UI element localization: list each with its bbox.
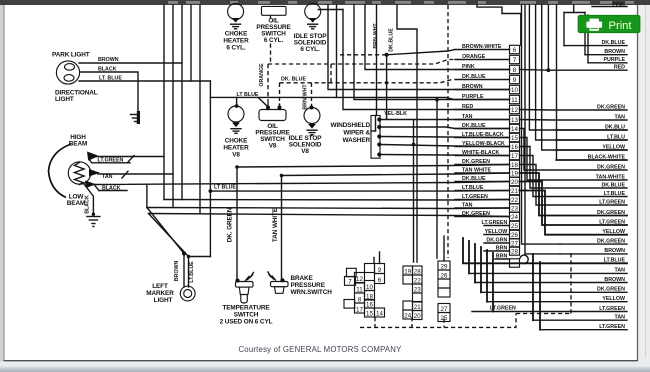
wire right row RED y=70.2 [520, 69, 628, 72]
svg-text:YELLOW-BLACK: YELLOW-BLACK [462, 141, 505, 147]
svg-text:DK.GREEN: DK.GREEN [597, 104, 625, 110]
wire right row BLACK-WHITE y=160 [556, 159, 627, 161]
cluster1 box 12 [355, 273, 365, 283]
wire vertical x=200 from top to bus 24 [199, 5, 201, 214]
svg-text:Courtesy of GENERAL MOTORS COM: Courtesy of GENERAL MOTORS COMPANY [238, 345, 402, 354]
svg-text:HEATER: HEATER [223, 38, 249, 45]
svg-text:BRN: BRN [496, 245, 508, 251]
svg-text:PURPLE: PURPLE [462, 94, 484, 100]
svg-text:YELLOW: YELLOW [602, 296, 625, 302]
svg-text:BRN: BRN [496, 253, 508, 259]
wire pin 10 BROWN [455, 89, 510, 91]
wire right row LT.GREEN y=311.5 [472, 311, 627, 313]
windshield wiper washer box [371, 116, 380, 159]
svg-text:DK.GREEN: DK.GREEN [597, 287, 625, 293]
cluster1 box blank [365, 264, 375, 273]
svg-text:9: 9 [378, 267, 382, 274]
svg-text:19: 19 [511, 171, 518, 178]
wire right row DK.BLUE y=188 [520, 147, 628, 189]
svg-text:BROWN: BROWN [98, 57, 119, 63]
wire pin 6 feed from top [477, 5, 521, 45]
wire right row YELLOW y=150 [556, 149, 627, 151]
wire vertical x=191 from top to LT.BLUE park wire [190, 5, 192, 81]
extra connector box below pin 28 [510, 259, 520, 267]
ground for low beam [92, 213, 95, 216]
svg-text:BLACK-WHITE: BLACK-WHITE [588, 154, 626, 160]
cluster1 box 6 [375, 274, 385, 284]
headlamp sealed beam symbol [49, 144, 72, 198]
svg-text:BEAM: BEAM [67, 200, 85, 207]
svg-text:MARKER: MARKER [146, 290, 174, 297]
cluster1 box 15 [365, 308, 375, 317]
svg-text:6 CYL.: 6 CYL. [226, 45, 246, 52]
wire DK.BLUE vertical x=397 corner to cluster 2 [397, 5, 417, 262]
svg-text:10: 10 [511, 87, 518, 94]
park-directional light lamp symbol [56, 61, 79, 84]
svg-text:LT. BLUE: LT. BLUE [99, 76, 122, 82]
wire bus to pin 22 [164, 199, 510, 202]
svg-text:25: 25 [511, 223, 518, 230]
wire right row TAN-WHITE y=180 [520, 138, 628, 181]
svg-text:16: 16 [511, 144, 518, 151]
wire LT.BLUE row y=97.4 to connector pin 11 [210, 97, 454, 99]
svg-text:2 USED ON 6 CYL: 2 USED ON 6 CYL [220, 319, 273, 326]
svg-text:WASHER: WASHER [343, 137, 371, 144]
cluster1 box 9 [375, 264, 385, 274]
wire BRN-WHT dashed drop to V8 idle solenoid [311, 83, 313, 107]
svg-text:DK.BLUE: DK.BLUE [462, 123, 486, 129]
wire bus to pin 19 with TAN WHITE tap [282, 173, 510, 176]
wire long vertical x=521.5 to DK.GREEN row 244 [522, 5, 561, 244]
svg-text:15: 15 [366, 310, 373, 317]
wire pin 7 ORANGE [455, 59, 510, 61]
wire pin 17 WHITE-BLACK [455, 155, 510, 157]
wire RED feed vertical x=343 to pin 12 [343, 10, 510, 110]
wire bus to pin 21 LT.BLUE [210, 190, 509, 193]
svg-text:21: 21 [511, 188, 518, 195]
wire right row LT.BLUE y=263.3 [463, 262, 627, 264]
wire right row TAN y=320.2 [533, 319, 627, 321]
svg-text:LT.GREEN: LT.GREEN [481, 220, 507, 226]
svg-text:BRN-WHT: BRN-WHT [373, 23, 379, 49]
svg-text:SWITCH: SWITCH [234, 312, 259, 319]
svg-text:DK.GREEN: DK.GREEN [462, 159, 490, 165]
svg-text:6 CYL.: 6 CYL. [264, 37, 284, 44]
svg-text:DK.GREEN: DK.GREEN [597, 238, 625, 244]
wire vertical from junction down to wiper row [386, 55, 388, 120]
wiper terminal dots [377, 117, 381, 121]
svg-text:BROWN: BROWN [604, 248, 625, 254]
svg-text:14: 14 [376, 310, 383, 317]
temperature switch broken terminal squiggle [246, 277, 250, 281]
wire right row TAN y=273.4 [469, 272, 627, 274]
cluster2 box 24 [403, 310, 413, 319]
wire L-drop x=469 to right row 273.4 [468, 241, 470, 273]
wire right row LT.GREEN y=225 [520, 182, 628, 226]
cluster1 box 11 [355, 283, 365, 293]
wire TAN bottom feed [532, 254, 534, 320]
svg-text:LT.BLUE-BLACK: LT.BLUE-BLACK [462, 132, 504, 138]
wire vertical x=556.5 to right row y=160 [557, 5, 628, 160]
wire ORANGE dashed row to pin 7 [268, 60, 455, 65]
wire pin 16 YELLOW-BLACK [455, 146, 510, 148]
wire right row DK.GREEN y=215.5 [520, 173, 628, 216]
svg-text:BROWN-WHITE: BROWN-WHITE [462, 44, 502, 50]
svg-text:LIGHT: LIGHT [154, 297, 173, 304]
svg-text:BRN-WHT: BRN-WHT [303, 84, 309, 110]
svg-text:PRESSURE: PRESSURE [291, 282, 326, 289]
wire bus to pin 18 with DK.GREEN tap [237, 165, 510, 168]
wire vertical x=173 from top through TAN to bus 23 [172, 174, 174, 208]
svg-text:TAN: TAN [462, 114, 473, 120]
svg-text:19: 19 [404, 268, 411, 275]
wire pin 27 DK.GRN [484, 242, 510, 244]
cluster1 box blank [344, 300, 355, 309]
wire vertical x=182 from top joining BROWN park light to bus 22 [181, 5, 183, 200]
junction dot V8 oil switch left terminal [266, 106, 270, 110]
wire wiper row 1 to pin 13 [382, 119, 510, 121]
svg-text:BROWN: BROWN [174, 261, 180, 282]
wire LT.BLUE from park light [79, 80, 210, 82]
wire pin 9 DK.BLUE [455, 79, 510, 81]
svg-text:CHOKE: CHOKE [225, 138, 248, 145]
cluster3 box 26 [438, 270, 450, 279]
wire link marker to vertical x=210.4 [189, 256, 211, 258]
wire right row PINK y=6.5 [592, 6, 627, 8]
wire LT.GREEN bottom feed [539, 262, 541, 330]
wire right row TAN y=120 [520, 119, 628, 122]
svg-text:DK.GREEN: DK.GREEN [597, 210, 625, 216]
svg-text:27: 27 [441, 306, 448, 313]
svg-text:BEAM: BEAM [69, 141, 87, 148]
svg-text:TAN-WHITE: TAN-WHITE [596, 174, 626, 180]
svg-text:24: 24 [404, 312, 411, 319]
svg-text:LT.BLU: LT.BLU [607, 134, 625, 140]
svg-text:DK.BLUE: DK.BLUE [462, 176, 486, 182]
wire vertical x=529.4 to right row y=130 [529, 5, 627, 130]
left marker light symbol [180, 286, 195, 301]
cluster2 box 21 [413, 302, 423, 311]
wire idle solenoid 6cyl to RED vertical [318, 9, 343, 11]
wire vertical link x=146.9 from BLACK [146, 185, 148, 208]
wire long vertical x=525 to BROWN row 254 [525, 5, 560, 254]
svg-text:Print: Print [609, 20, 633, 32]
svg-text:CHOKE: CHOKE [225, 31, 248, 38]
wire pin 20 DK.BLUE [455, 181, 510, 183]
wire diagonal to left marker BROWN [147, 208, 184, 254]
wire wiper row 5 to pin 17 [382, 155, 510, 156]
wire right row DK.GREEN y=170 [520, 129, 628, 171]
cluster3 box 27 [438, 304, 450, 313]
svg-text:TAN WHITE: TAN WHITE [272, 207, 279, 242]
svg-text:BROWN: BROWN [604, 277, 625, 283]
svg-text:DK.GRN: DK.GRN [486, 237, 507, 243]
svg-text:28: 28 [414, 268, 421, 275]
wire dashed pin6 feed with junction [340, 54, 387, 56]
wire pin 11 PURPLE [455, 99, 510, 101]
svg-text:WIPER &: WIPER & [343, 130, 370, 137]
svg-text:22: 22 [414, 277, 421, 284]
wire right row DK.BLU y=130 [556, 129, 627, 131]
wire ORANGE dashed vertical [270, 15, 272, 18]
svg-text:RED: RED [614, 65, 625, 71]
wire pin 6 BROWN-WHITE [455, 49, 510, 51]
wire DK.BLUE dashed row to pin 9 [280, 80, 453, 83]
dashed firewall boundary line [447, 5, 449, 258]
svg-text:LEFT: LEFT [152, 283, 168, 290]
wire PURPLE feed vertical x=354 to pin 11 [354, 5, 510, 100]
svg-text:BROWN: BROWN [462, 84, 483, 90]
window chrome top bar [0, 0, 650, 5]
wire wiper branch x=413.5 down to cluster 2 [413, 120, 415, 263]
wire solid pin6 feed from junction [387, 50, 455, 55]
wire L-drop x=487 to right row 301.7 [486, 250, 488, 302]
svg-text:PINK: PINK [462, 64, 475, 70]
svg-text:17: 17 [511, 153, 518, 160]
svg-text:YELLOW: YELLOW [485, 229, 508, 235]
wire pin 19 TAN WHITE [455, 172, 510, 174]
wire right row DK.GREEN y=244.1 [560, 243, 627, 245]
wire wiper row 4 to pin 16 [382, 145, 510, 147]
cluster1 box 14 [375, 308, 385, 317]
wire pin 26 YELLOW [484, 234, 510, 236]
svg-text:6 CYL.: 6 CYL. [300, 46, 320, 53]
svg-text:LT BLUE: LT BLUE [237, 92, 259, 98]
svg-text:29: 29 [441, 263, 448, 270]
cluster3 box blank [438, 279, 450, 288]
wire T-split feeding DK.BLUE and BROWN right rows [573, 5, 575, 13]
svg-text:23: 23 [414, 286, 421, 293]
wire pin 24 DK.GREEN [455, 216, 510, 218]
cluster1 box 18 [365, 291, 375, 301]
svg-text:PINK: PINK [612, 2, 625, 8]
wire TAN WHITE drop to brake switch [281, 176, 283, 280]
svg-text:V8: V8 [269, 143, 277, 150]
svg-text:PURPLE: PURPLE [604, 57, 626, 63]
svg-text:15: 15 [511, 135, 518, 142]
wire L-drop x=475 to right row 282.5 [474, 244, 476, 283]
dashed drops from clusters [374, 317, 376, 327]
svg-text:26: 26 [511, 232, 518, 239]
svg-text:LT.GREEN: LT.GREEN [462, 194, 488, 200]
wire right row DK.BLUE y=45.6 [564, 45, 627, 47]
svg-text:TEMPERATURE: TEMPERATURE [222, 305, 270, 312]
svg-text:DK.BLUE: DK.BLUE [389, 28, 395, 52]
svg-text:13: 13 [511, 117, 518, 124]
wire PINK feed vertical x=365 to pin 8 [365, 5, 510, 70]
svg-text:26: 26 [441, 272, 448, 279]
svg-text:DK.BLU: DK.BLU [605, 124, 625, 130]
wire right row BROWN y=282.5 [475, 282, 627, 284]
wire right row BROWN y=253.9 [560, 253, 627, 255]
svg-text:11: 11 [356, 286, 363, 293]
cluster2 box 20 [413, 311, 423, 320]
wire LT.BLUE drop to V8 choke heater [236, 97, 238, 105]
wire vertical x=535.6 to right row y=140 [536, 5, 627, 140]
wire LT.GREEN from high beam going up at x=164 [96, 5, 164, 157]
svg-text:BLACK: BLACK [98, 67, 117, 73]
wire diagonal to left marker LT.BLUE [149, 214, 189, 257]
wire vertical x=336.5 to LT.BLUE row [336, 5, 338, 97]
wire wiper row 3 to pin 15 [382, 137, 510, 138]
wire pin 12 RED [455, 109, 510, 111]
svg-text:12: 12 [511, 107, 518, 114]
brake switch broken terminal squiggle [272, 276, 276, 280]
svg-text:23: 23 [511, 206, 518, 213]
cluster1 box 7 [345, 277, 356, 286]
wire BRN-WHT vertical to wiper box [376, 5, 378, 115]
wire right row LT.BLUE y=196.5 [520, 156, 628, 197]
window chrome bottom scrollbar [0, 361, 650, 366]
wire DK.BLUE dashed drop to V8 oil switch right terminal [279, 83, 281, 107]
cluster2 box blank [403, 301, 413, 310]
cluster1 box 10 [365, 281, 375, 291]
wire branch x=210.4 down through LT.BLUE bus to marker link [209, 81, 211, 257]
wire right row LT.BLU y=140 [556, 139, 627, 141]
wire DK.GREEN drop to temperature switch [236, 167, 238, 279]
wire extra BRN row below pin 28 [495, 258, 510, 260]
cluster2 box blank [403, 275, 413, 284]
wire right row LT.GREEN y=329.7 [540, 329, 627, 331]
svg-text:DK. BLUE: DK. BLUE [281, 76, 306, 82]
svg-text:24: 24 [511, 214, 518, 221]
brake pressure switch symbol [280, 278, 284, 282]
svg-text:8: 8 [513, 67, 517, 74]
wire loop decoration right of pin 28 [520, 255, 528, 263]
wire pin 13 TAN [455, 119, 510, 121]
svg-text:LT.BLUE: LT.BLUE [462, 185, 484, 191]
wire right row BROWN y=54.7 [585, 54, 627, 56]
svg-text:8: 8 [358, 296, 362, 303]
temperature switch symbol [235, 278, 239, 282]
cluster2 box 23 [413, 284, 423, 293]
wire right row YELLOW y=234.7 [520, 191, 628, 235]
wire L-drop x=493 to right row 311.5 [492, 253, 494, 312]
svg-text:LT.GREEN: LT.GREEN [599, 219, 625, 225]
cluster2 box 28 [413, 266, 423, 275]
dashed lower boundary [360, 314, 516, 328]
wire pin 25 LT.GREEN [484, 225, 510, 227]
cluster2 box blank [413, 293, 423, 302]
svg-text:DK.BLUE: DK.BLUE [462, 74, 486, 80]
bulkhead connector strip [510, 45, 520, 53]
wire pin 15 LT.BLUE-BLACK [455, 137, 510, 139]
wire pin 22 LT.GREEN [455, 199, 510, 201]
wire pin 18 DK.GREEN [455, 164, 510, 166]
svg-text:BROWN: BROWN [604, 49, 625, 55]
wire BROWN from park light [79, 62, 182, 64]
idle stop solenoid 6cyl symbol [305, 3, 321, 19]
svg-text:28: 28 [511, 249, 518, 256]
svg-text:DK.BLUE: DK.BLUE [601, 182, 625, 188]
svg-text:LT.GREEN: LT.GREEN [599, 324, 625, 330]
cluster feed stubs [379, 252, 381, 264]
svg-text:TAN: TAN [462, 202, 473, 208]
svg-text:LT BLUE: LT BLUE [214, 185, 236, 191]
svg-text:17: 17 [356, 306, 363, 313]
svg-text:YEL-BLK: YEL-BLK [384, 111, 407, 117]
svg-text:V8: V8 [301, 148, 309, 155]
cluster3 box blank [438, 288, 450, 297]
svg-text:YELLOW: YELLOW [602, 229, 625, 235]
svg-text:WINDSHIELD: WINDSHIELD [331, 122, 371, 129]
wire right row DK.GREEN y=292.3 [481, 291, 627, 293]
idle stop solenoid V8 symbol [304, 108, 320, 124]
svg-text:TAN WHITE: TAN WHITE [462, 167, 491, 173]
svg-text:WHITE-BLACK: WHITE-BLACK [462, 150, 500, 156]
svg-text:LT.BLUE: LT.BLUE [189, 261, 195, 283]
svg-text:TAN: TAN [615, 315, 626, 321]
left marker light wires down [183, 254, 185, 288]
wire BLACK bus from low beam to connector pin 20 [94, 182, 510, 185]
svg-text:LT.GREEN: LT.GREEN [599, 306, 625, 312]
svg-text:20: 20 [414, 313, 421, 320]
svg-text:10: 10 [366, 284, 373, 291]
wire PURPLE right row feed [587, 15, 589, 63]
window chrome left edge [0, 5, 4, 372]
svg-text:22: 22 [511, 197, 518, 204]
wire drop x=437 from PURPLE row to cluster 3 [435, 98, 439, 102]
svg-text:18: 18 [511, 162, 518, 169]
svg-text:LT.GREEN: LT.GREEN [599, 199, 625, 205]
oil pressure switch 6cyl symbol [262, 6, 287, 15]
svg-text:7: 7 [348, 279, 352, 286]
wire right row LT.GREEN y=205 [520, 165, 628, 206]
svg-text:DK. GREEN: DK. GREEN [227, 207, 234, 242]
svg-text:LIGHT: LIGHT [55, 96, 74, 103]
wire pin 28 BRN [484, 250, 510, 252]
wire vertical x=164 continuation to bus 22 [163, 157, 165, 200]
cluster1 box 8 [355, 293, 365, 303]
wire pin 14 DK.BLUE [455, 128, 510, 130]
svg-text:12: 12 [356, 276, 363, 283]
svg-text:DK.BLUE: DK.BLUE [601, 40, 625, 46]
svg-text:TAN: TAN [615, 114, 626, 120]
cluster3 box 29 [438, 261, 450, 270]
window chrome right edge [638, 5, 650, 372]
oil pressure switch V8 symbol [259, 110, 286, 121]
print button printer icon [590, 19, 599, 23]
svg-text:V8: V8 [232, 152, 240, 159]
wire bus to pin 23 [147, 208, 510, 209]
cluster1 box blank [347, 268, 357, 276]
svg-text:ORANGE: ORANGE [462, 54, 486, 60]
wire bus to pin 24 [149, 214, 510, 217]
svg-text:16: 16 [366, 301, 373, 308]
wire wiper row 2 to pin 14 [382, 127, 510, 129]
headlamp terminal wedges [87, 152, 98, 160]
wire vertical x=548.4 to RED row junction [547, 5, 549, 70]
svg-text:PARK LIGHT: PARK LIGHT [52, 52, 90, 59]
cluster2 box 22 [413, 275, 423, 284]
wire dashed link x=331 [330, 64, 332, 83]
choke heater 6cyl symbol [228, 4, 244, 20]
wire right row DK.GREEN y=110 [520, 109, 628, 112]
svg-text:RED: RED [462, 104, 473, 110]
svg-text:BRAKE: BRAKE [291, 275, 314, 282]
svg-text:YELLOW: YELLOW [602, 144, 625, 150]
svg-text:DK.GREEN: DK.GREEN [462, 211, 490, 217]
wire pin 8 PINK [455, 69, 510, 71]
svg-text:11: 11 [511, 97, 518, 104]
svg-text:6: 6 [378, 277, 382, 284]
cluster1 box 16 [365, 300, 375, 309]
svg-text:LT.BLUE: LT.BLUE [604, 191, 626, 197]
wire pin 23 TAN [455, 207, 510, 209]
svg-text:DK.GREEN: DK.GREEN [597, 164, 625, 170]
print button [578, 15, 640, 32]
wire BROWN feed vertical x=328 to pin 10 [328, 5, 510, 90]
